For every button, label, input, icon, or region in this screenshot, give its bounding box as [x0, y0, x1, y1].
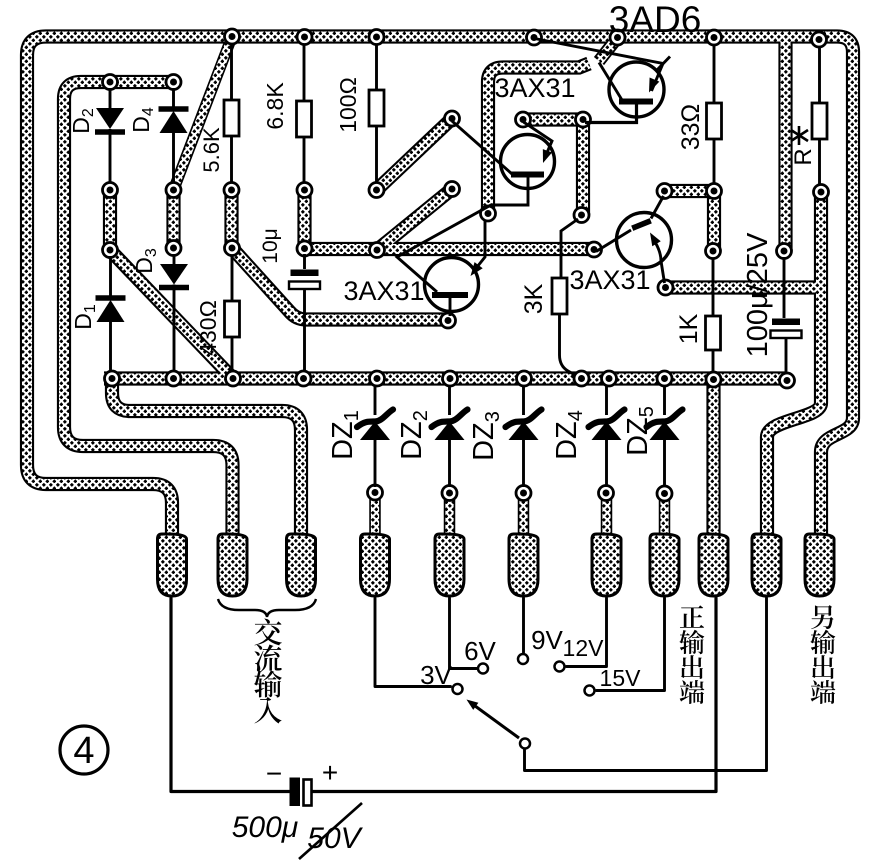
wire trace: second-left vertical (AC input b)	[64, 82, 233, 542]
wire trace: R* net down to switch-return terminal	[767, 192, 821, 542]
AC input brace	[218, 599, 316, 617]
label R* asterisk	[791, 126, 808, 145]
wire trace: stub DZ2 to terminal	[445, 493, 453, 540]
svg-text:4: 4	[73, 730, 94, 772]
svg-text:3AX31: 3AX31	[343, 276, 424, 306]
svg-text:3AD6: 3AD6	[609, 0, 702, 40]
wire trace: branch top bus to 100u cap	[781, 40, 791, 251]
wire trace: diagonal 100ohm to Q2 base pad	[377, 119, 453, 191]
resistor 5.6K	[224, 44, 239, 183]
wire trace: Q4 emitter horizontal y=288	[666, 283, 822, 293]
terminal DZ4 12V tap	[592, 534, 621, 596]
terminal other output	[805, 534, 834, 596]
diode D3	[159, 254, 189, 372]
capacitor 500u/50V	[290, 778, 312, 807]
wire trace: stub DZ3 to terminal	[519, 493, 527, 540]
switch pivot	[520, 739, 530, 749]
wire AC common to 500u cap minus	[171, 598, 290, 792]
wire trace: link 33ohm top y=191	[665, 186, 715, 196]
svg-text:33Ω: 33Ω	[677, 104, 705, 151]
svg-text:100μ/25V: 100μ/25V	[742, 232, 774, 357]
wire trace: diagonal+horizontal to Q3 collector pad	[232, 248, 448, 320]
wire trace: third AC riser from bottom bus	[112, 380, 301, 542]
terminal AC common (to 500u cap)	[158, 534, 187, 596]
svg-text:6V: 6V	[464, 636, 496, 666]
resistor 100ohm	[369, 44, 384, 183]
terminal positive output	[699, 534, 728, 596]
svg-text:10μ: 10μ	[259, 228, 282, 263]
transistor 3AX31 (U2, middle)	[425, 221, 486, 316]
wire trace: stub 6.8K column	[300, 190, 310, 249]
wire trace: mid bus y=249	[305, 244, 595, 254]
zener DZ2	[432, 386, 468, 487]
transistor 3AD6 (U0)	[535, 39, 671, 123]
svg-text:3V: 3V	[420, 660, 452, 690]
zener DZ3	[506, 386, 542, 487]
wire trace: outer loop (top bus / left edge / right edge)	[27, 37, 853, 543]
wire trace: stub 5.6K column	[227, 190, 237, 248]
zener DZ4	[589, 386, 625, 487]
label positive output terminal	[679, 605, 704, 704]
svg-text:1K: 1K	[675, 313, 703, 344]
terminal switch return	[752, 534, 781, 596]
svg-text:3K: 3K	[520, 283, 548, 314]
wire trace: vertical x=583	[578, 120, 588, 216]
zener DZ1	[357, 386, 393, 487]
terminal DZ5 15V tap	[650, 534, 679, 596]
wire trace: stub DZ5 to terminal	[660, 493, 668, 540]
terminal DZ1 3V tap	[361, 534, 390, 596]
wire DZ3 tap to 9V contact	[522, 598, 525, 653]
svg-text:500μ: 500μ	[232, 811, 299, 844]
svg-text:100Ω: 100Ω	[335, 77, 361, 133]
diode D1	[96, 256, 126, 372]
15V contact	[585, 686, 595, 696]
capacitor 10u	[289, 254, 320, 372]
wire trace: stub D2 column	[105, 190, 115, 250]
wire trace: bottom bus y=378	[104, 374, 787, 384]
resistor R*	[812, 46, 827, 185]
svg-text:6.8K: 6.8K	[262, 82, 288, 130]
svg-text:3AX31: 3AX31	[569, 265, 650, 295]
svg-text:430Ω: 430Ω	[195, 300, 221, 356]
figure number 4	[60, 726, 108, 774]
terminal DZ2 6V tap	[435, 534, 464, 596]
resistor 1K	[706, 258, 721, 373]
wire trace: stub DZ1 to terminal	[371, 493, 379, 540]
zener DZ5	[647, 386, 683, 487]
wire trace: diagonal top bus to D4 column	[174, 37, 233, 191]
svg-text:9V: 9V	[531, 625, 563, 655]
wire trace: stub D4/D3 column	[169, 190, 179, 248]
svg-text:+: +	[322, 757, 338, 788]
svg-text:R: R	[790, 148, 817, 165]
resistor 430ohm	[225, 255, 240, 372]
wire positive output to 500u cap plus	[312, 598, 716, 792]
resistor 6.8K	[297, 44, 312, 183]
wire trace: bottom bus to positive output terminal	[709, 380, 719, 542]
terminal AC input a	[218, 534, 247, 596]
diode D4	[159, 88, 189, 183]
terminal DZ3 9V tap	[509, 534, 538, 596]
transistor 3AX31 (U1, top-middle)	[397, 121, 555, 292]
switch arm	[464, 696, 519, 738]
copper traces: outlines	[27, 37, 853, 543]
wire DZ1 tap to 3V contact	[375, 598, 451, 687]
3V contact	[453, 684, 463, 694]
wire DZ4 tap to 12V contact	[567, 598, 607, 667]
terminal AC input b	[287, 534, 316, 596]
wire DZ5 tap to 15V contact	[597, 598, 665, 691]
wire switch common to return terminal	[525, 598, 767, 771]
solder pads (junction rings)	[103, 29, 829, 501]
wire DZ2 tap to 6V contact	[450, 598, 477, 669]
9V contact	[518, 654, 528, 664]
wire trace: Q2 emitter link y=120	[523, 115, 583, 125]
wire trace: 3AD6 base stub	[599, 38, 618, 62]
transistor 3AX31 (U3, right)	[596, 196, 672, 283]
svg-text:3AX31: 3AX31	[494, 73, 575, 103]
resistor 3K	[552, 219, 578, 375]
label AC input (jiao liu shu ru)	[254, 618, 282, 723]
label other output terminal	[810, 605, 835, 704]
wire trace: diagonal Q2 collector pad to mid bus	[377, 189, 452, 250]
wire trace: stub DZ4 to terminal	[602, 493, 610, 540]
capacitor 100u/25V	[771, 257, 802, 374]
12V contact	[555, 662, 565, 672]
resistor 33ohm	[707, 45, 722, 184]
wire trace: stub 33ohm to 1K	[709, 191, 719, 251]
wire trace: hook around Q2 (3AD6 emitter net)	[488, 64, 589, 214]
svg-text:−: −	[266, 758, 282, 789]
svg-text:15V: 15V	[600, 665, 642, 691]
svg-text:5.6K: 5.6K	[199, 127, 224, 173]
svg-text:12V: 12V	[563, 635, 605, 661]
wire trace: diagonal D1 top to bottom bus	[110, 250, 233, 379]
label slash 500u/50V	[299, 803, 362, 859]
6V contact	[478, 664, 488, 674]
diode D2	[95, 88, 125, 183]
